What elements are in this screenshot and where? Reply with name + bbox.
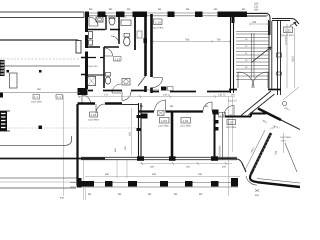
svg-text:170: 170 [104, 94, 109, 97]
vestibule rectangle in hall [10, 73, 18, 88]
door jamb blob on corridor wall [144, 38, 148, 43]
pier at corridor junction [213, 110, 219, 115]
svg-text:ŁE: ŁE [127, 7, 131, 11]
wall: top-right corner turning down [247, 14, 299, 36]
wall: hall east wall pier box [76, 41, 81, 54]
svg-text:302: 302 [129, 131, 132, 136]
svg-text:1q=0.98m: 1q=0.98m [88, 119, 99, 122]
wall: wing south rounded corner [250, 174, 257, 182]
wall: v-wall x135 shaft [134, 13, 136, 50]
svg-text:ŁE: ŁE [88, 192, 92, 196]
wall: corridor north wall segments [88, 90, 145, 92]
dimension: corridor line [78, 96, 235, 98]
svg-text:1.1: 1.1 [34, 95, 38, 99]
svg-text:1.07: 1.07 [228, 121, 234, 125]
svg-text:305.1: 305.1 [281, 140, 287, 143]
svg-text:1q=2.0m: 1q=2.0m [88, 65, 97, 68]
svg-text:285: 285 [254, 9, 259, 12]
jamb blocks on south wall [137, 156, 144, 161]
svg-text:284: 284 [222, 166, 227, 169]
wall: west wall of mid block [85, 12, 88, 89]
fixtures: sink mid [89, 32, 93, 39]
small symbol bottom right of wing [255, 189, 259, 192]
svg-text:1q=2.08m: 1q=2.08m [158, 125, 169, 128]
staircase stringer [252, 33, 255, 78]
staircase treads [236, 32, 269, 80]
hall lower line [0, 92, 80, 94]
svg-text:630: 630 [198, 173, 203, 176]
wall: corridor south wall / top wall of bottom rooms [139, 110, 218, 112]
svg-text:ŁE: ŁE [89, 7, 93, 11]
wall: room 1.19 west wall [150, 14, 153, 77]
dimension: line y163.5 [140, 163, 232, 165]
svg-text:1.19: 1.19 [155, 21, 161, 25]
hall glazed wall line [0, 65, 80, 67]
door arc hall to corridor [82, 95, 91, 104]
wall: h-wall y47 [88, 46, 119, 48]
door arc room 1.19 west [153, 78, 163, 88]
hatched wall section element upper [0, 60, 5, 76]
svg-text:140.75: 140.75 [218, 94, 226, 97]
tick: h-wall stubs on west wall [81, 58, 86, 75]
wall: hall south wall thick [0, 158, 81, 160]
room label 1.04 [181, 118, 191, 124]
svg-text:ŁE: ŁE [186, 7, 190, 11]
svg-text:1q=3.70: 1q=3.70 [228, 100, 237, 103]
svg-text:302.5: 302.5 [292, 55, 295, 62]
svg-text:305: 305 [231, 94, 236, 97]
wall: wall between 1.03 and 1.04 [171, 112, 174, 160]
dimension: vertical line through hall [63, 95, 65, 196]
dimension: vertical right margin [287, 24, 295, 88]
staircase tread numbers [245, 38, 248, 69]
room label 1.19 [154, 19, 163, 25]
room label 1.05 [219, 113, 226, 118]
dimension: short v lines [84, 160, 128, 200]
fixtures: cistern shelf right room [121, 20, 131, 26]
wall: corridor 1.06 west wall [214, 112, 216, 160]
wall: south boundary wall with piers [70, 183, 238, 188]
wall: wing south wall [257, 182, 300, 187]
wall: v-wall x106 upper [105, 15, 107, 30]
door jambs on corridor [216, 120, 219, 124]
mullion dots [7, 70, 10, 73]
shaft marks [137, 31, 142, 38]
svg-text:ŁE: ŁE [242, 7, 246, 11]
angled wing junction diagonals [241, 91, 275, 116]
line below hall [0, 159, 78, 178]
svg-text:1.1: 1.1 [57, 95, 61, 99]
svg-text:1.4 m: 1.4 m [121, 16, 127, 19]
wall: h-wall y30 [88, 29, 120, 31]
svg-text:ŁE: ŁE [118, 192, 122, 196]
svg-text:1q=2.08m: 1q=2.08m [153, 27, 164, 30]
wire: north terrace double line left wing [0, 12, 84, 18]
wall: v-wall x104 lower [103, 47, 105, 88]
door arc lower [112, 84, 121, 93]
wall: north facade piers [85, 12, 247, 18]
door arc into 1.16 [96, 104, 105, 113]
door arc x119 wall [111, 36, 119, 44]
dimension: line y176.5 [85, 176, 240, 178]
door leaf corridor [138, 76, 146, 86]
door jamb blocks [137, 115, 141, 118]
wall: west wall of mid-block rooms [76, 104, 78, 186]
vent symbols below boundary [88, 192, 203, 196]
svg-text:1q=2.96m: 1q=2.96m [180, 125, 191, 128]
room label sanitary [114, 57, 122, 62]
fixtures: wc lower right room [124, 34, 130, 38]
staircase arrow [252, 47, 271, 62]
wing interior partition line [283, 133, 285, 153]
door jamb blob 1.03 [142, 114, 148, 119]
vent symbol row above north wall [89, 7, 246, 11]
svg-text:1q=2.96m: 1q=2.96m [280, 136, 291, 139]
svg-text:758: 758 [185, 39, 190, 42]
svg-text:1.04: 1.04 [183, 119, 189, 123]
wall: v-wall x119 [118, 15, 120, 44]
dimension: v lines right of corridor [229, 97, 233, 196]
svg-text:KOMUNIK.: KOMUNIK. [219, 144, 222, 157]
corner mark [0, 93, 3, 98]
dotted line across hall [8, 127, 140, 129]
wall: room 1.07 north wall stepped [225, 114, 266, 117]
svg-text:950: 950 [37, 88, 42, 91]
dimension: line under corner [250, 23, 268, 26]
door arc top-left room [89, 17, 98, 26]
room label 1.07 [227, 120, 236, 125]
hall dashed beam line [0, 58, 80, 60]
sidewalk lines bottom left [0, 181, 77, 183]
svg-text:ŁE: ŁE [148, 192, 152, 196]
wall: corridor east wall thin [222, 112, 224, 160]
svg-text:281: 281 [186, 166, 191, 169]
svg-text:1q=2.08m: 1q=2.08m [31, 101, 42, 104]
room label 1.16 [90, 112, 98, 117]
svg-text:1.13: 1.13 [115, 57, 121, 61]
wall: room 1.19 east wall / stair west wall [231, 16, 234, 93]
dimension: room 1.19 width [153, 40, 230, 43]
slope arrow top-right [290, 22, 296, 26]
svg-text:1.05: 1.05 [220, 113, 226, 117]
wall: corridor west wall x145.5 [144, 13, 147, 76]
boundary piers [77, 178, 238, 188]
hall south inner line with corner jog [0, 136, 72, 146]
door arc room 1.03 [155, 100, 166, 111]
wall: left wing north wall [0, 39, 78, 41]
wall: h-wall y75 [86, 74, 104, 76]
junction box on dotted line [39, 126, 43, 130]
dimension: stacked texts top right [254, 3, 259, 12]
wall: south wall right segment curve [218, 159, 246, 173]
door arc at wing corner [246, 176, 257, 185]
svg-text:1.21: 1.21 [285, 28, 291, 32]
door vent symbol 1.03 [158, 111, 165, 116]
svg-text:ŁE: ŁE [109, 7, 113, 11]
svg-text:ŁE: ŁE [205, 104, 209, 108]
dimension slashes on corridor line [78, 95, 216, 98]
wall: south wall of bottom rooms double line [81, 157, 237, 159]
svg-text:ŁE: ŁE [158, 7, 162, 11]
dimension: v line in 1.16 [131, 108, 133, 155]
svg-text:ŁE: ŁE [199, 192, 203, 196]
window symbol on east wall [277, 53, 282, 57]
wall: wall between 1.16 and 1.03 [139, 103, 142, 158]
room label 1.18 [33, 95, 40, 100]
door arc room 1.04 [203, 102, 212, 111]
wall: corner block at corridor junction [78, 88, 88, 95]
svg-text:1.16: 1.16 [91, 113, 97, 117]
door arcs mid rooms [105, 48, 113, 56]
wall: middle-left corridor south wall [78, 102, 123, 104]
circle symbol at junction [283, 102, 287, 106]
stairwell east wall [269, 21, 272, 90]
wall: north facade window sill lines [85, 13, 268, 16]
fixtures: shower lower-left [88, 77, 96, 86]
svg-text:288: 288 [252, 21, 257, 24]
hatched wall section element lower [0, 111, 10, 131]
fixtures: sink top room [96, 17, 103, 22]
room label 1.21 [284, 27, 293, 33]
svg-text:ŁE: ŁE [214, 7, 218, 11]
fixtures: wc in room top [109, 17, 115, 25]
door arc above stepped wall [224, 106, 234, 116]
wall: wing NW thick bar [258, 109, 281, 121]
wall: east outer wall of stair block [278, 21, 281, 95]
fixtures: wc lower-left room [106, 73, 111, 77]
wall: h-wall y58 [86, 57, 104, 59]
room label 1.03 [160, 118, 170, 124]
svg-text:140.1: 140.1 [163, 94, 170, 97]
svg-text:ŁE: ŁE [140, 104, 144, 108]
svg-text:1q=2.96m: 1q=2.96m [226, 126, 237, 129]
svg-text:750: 750 [217, 39, 222, 42]
door arc sanitary to corridor [122, 92, 131, 101]
svg-text:630: 630 [105, 173, 110, 176]
door arcs bottom of stairwell [238, 72, 254, 88]
svg-text:630: 630 [152, 173, 157, 176]
svg-text:1.03: 1.03 [161, 119, 167, 123]
dimension line parallel to diagonal [245, 130, 265, 170]
svg-text:ŁE: ŁE [170, 104, 174, 108]
svg-text:284: 284 [150, 166, 155, 169]
svg-text:1q=0.40: 1q=0.40 [285, 36, 288, 45]
svg-text:wys=2.07m: wys=2.07m [147, 89, 159, 92]
wall: steep hatched diagonal wall [251, 133, 272, 174]
svg-text:ŁE: ŁE [174, 192, 178, 196]
fixtures: sink with round basin lower [122, 79, 130, 86]
room label hall small box [56, 95, 63, 100]
wall: stair west wall stem at T junction [232, 16, 235, 23]
